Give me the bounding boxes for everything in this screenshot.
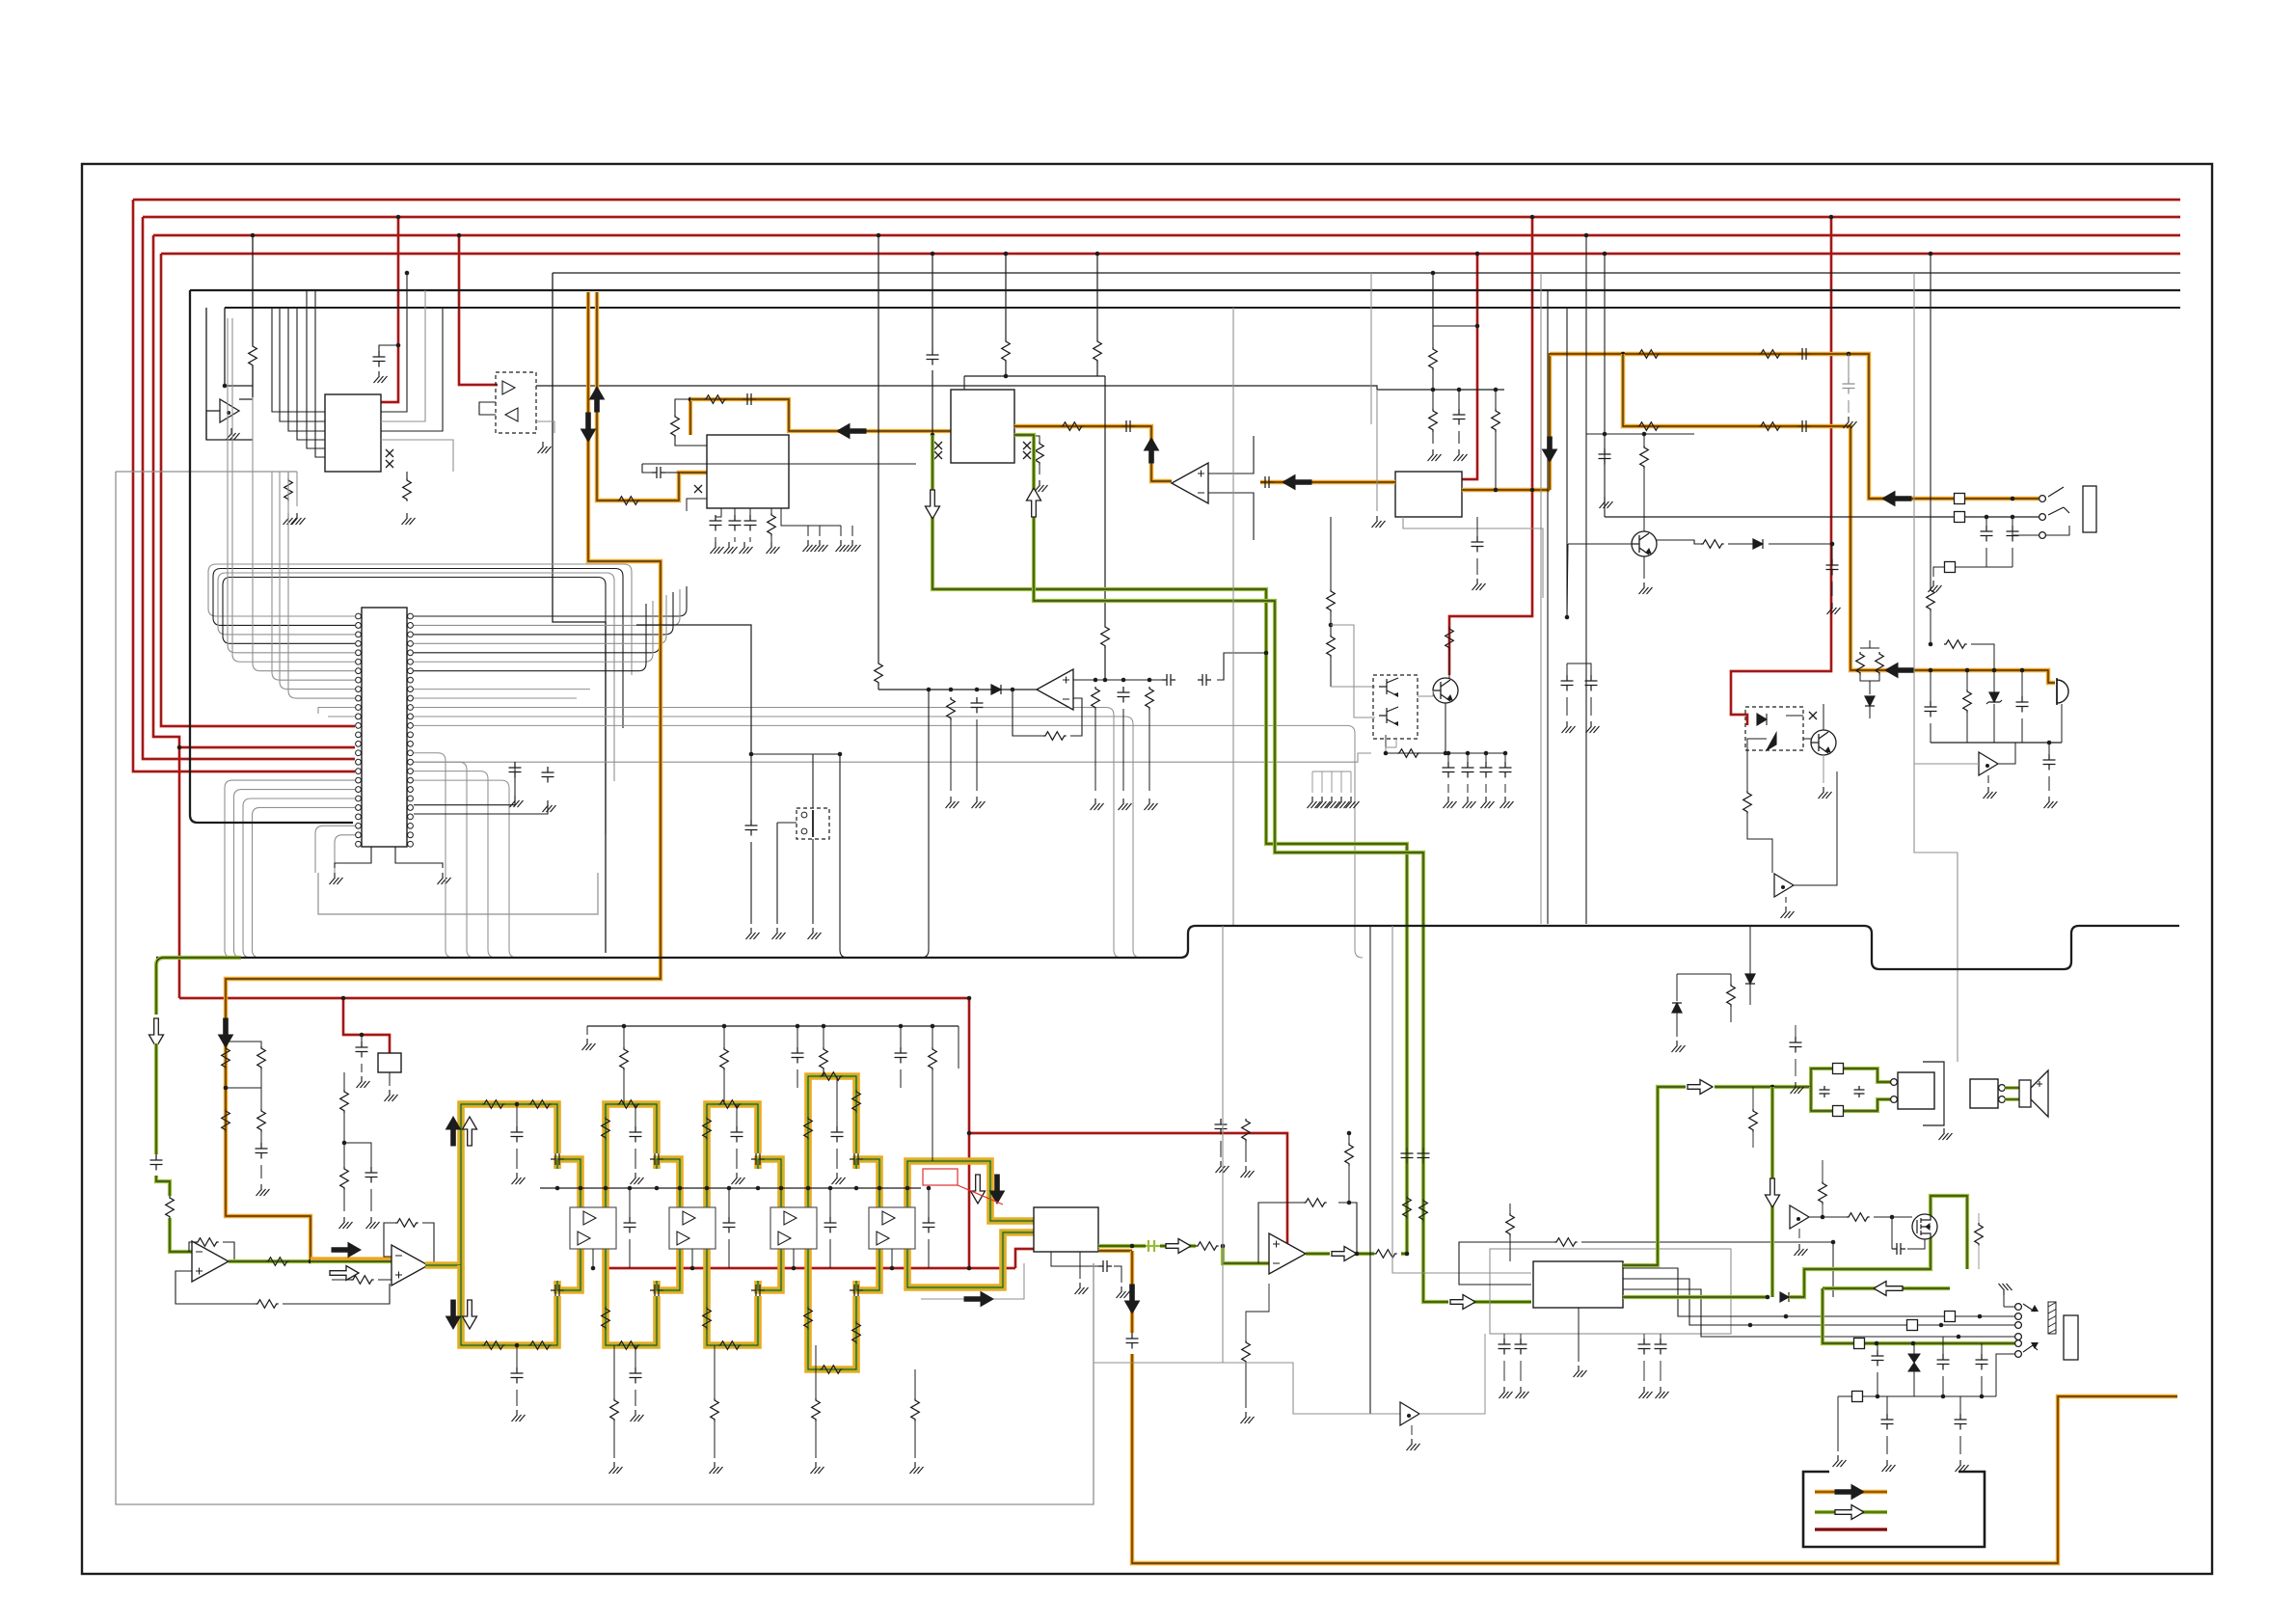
filter ladder top exit (orange+green) <box>907 1161 1034 1221</box>
ground <box>710 1462 723 1474</box>
wire <box>1448 649 1450 678</box>
wire <box>1660 1361 1661 1381</box>
ferrite bead <box>1955 494 1965 504</box>
wire <box>840 526 842 536</box>
buffer output wire <box>239 398 253 400</box>
resistor (filter) <box>718 1100 742 1109</box>
capacitor (mute) <box>1499 762 1512 778</box>
wire <box>586 1026 588 1035</box>
wire R4 tap1 <box>1005 254 1007 339</box>
capacitor C37 <box>1561 675 1574 691</box>
ground <box>366 1217 380 1229</box>
filter ladder entry + top run 1 (orange+green) <box>425 1104 557 1265</box>
bus line C wire <box>225 307 2180 309</box>
wire jack gnd rail <box>1940 566 2012 568</box>
ground <box>910 1462 924 1474</box>
wire feeder x1279 <box>1232 308 1234 926</box>
ground <box>1844 417 1857 428</box>
junction <box>1130 1244 1135 1249</box>
junction <box>405 271 410 276</box>
wire <box>1458 431 1460 444</box>
ground <box>1499 1387 1513 1398</box>
wire <box>260 1131 262 1143</box>
ground <box>1639 582 1653 594</box>
diode D7 (green path) <box>1780 1292 1789 1302</box>
MOSFET Q3 <box>1912 1214 1937 1239</box>
wire U2 gnd bundle2 <box>734 508 736 515</box>
wire U2 top left <box>675 399 690 415</box>
signal arrow (filled) <box>1145 438 1159 463</box>
capacitor (filter) <box>630 1367 642 1384</box>
wire amp feedback 2 <box>1581 1241 1833 1243</box>
wire <box>1749 926 1751 974</box>
resistor R15 <box>1036 442 1044 465</box>
wire <box>1467 753 1469 762</box>
ground <box>746 928 760 939</box>
wire CN1 right pin long <box>414 708 1121 959</box>
resistor R1 <box>249 344 257 367</box>
green to U15 wire <box>1223 1246 1269 1263</box>
junction <box>1603 432 1607 437</box>
wire U2 lower-left <box>642 464 652 473</box>
wire <box>723 1026 725 1047</box>
ground <box>1999 1284 2012 1295</box>
wire q5 emitter <box>1445 703 1446 753</box>
junction <box>1446 751 1451 756</box>
filter bias rail wire <box>587 1025 959 1027</box>
wire <box>1604 434 1606 448</box>
wire U1 left pin feed <box>280 308 325 421</box>
wire <box>1604 471 1606 490</box>
wire <box>623 1026 625 1047</box>
resistor R56 <box>222 1046 230 1069</box>
wire U1 left pin feed <box>288 308 325 431</box>
wire <box>287 472 289 478</box>
signal arrow (filled) <box>446 1117 461 1146</box>
wire <box>1869 640 1871 648</box>
wire <box>1503 1334 1505 1339</box>
resistor R73 (series on green) <box>1403 1196 1412 1219</box>
wire amp feed 1 <box>1369 926 1371 1414</box>
wire <box>1978 1245 1980 1269</box>
IC U3 <box>1395 472 1462 517</box>
junction <box>967 1266 972 1271</box>
wire <box>629 1239 631 1268</box>
wire cap stub <box>379 345 398 351</box>
wire CN1 right pin long <box>414 725 1363 958</box>
signal arrow (filled) <box>1882 492 1911 506</box>
wire <box>1749 984 1751 1005</box>
capacitor C68 <box>1881 1414 1894 1430</box>
resistor R63 <box>1374 1250 1397 1259</box>
resistor (filter) <box>528 1100 552 1109</box>
wire <box>1795 1059 1796 1076</box>
op-amp U13a <box>882 1211 895 1225</box>
capacitor (filter) <box>630 1126 642 1143</box>
orange link overlay wire <box>311 1257 392 1259</box>
resistor (filter) <box>711 1398 719 1421</box>
diode D1b <box>505 408 518 421</box>
wire CN1 pin to upper <box>288 472 355 698</box>
ground <box>1091 798 1104 810</box>
jack J1 sleeve terminal <box>2039 532 2046 539</box>
wire <box>1987 775 1989 783</box>
wire CN1 pin harness <box>223 578 606 835</box>
junction <box>931 252 935 257</box>
diode D3 <box>1753 539 1763 549</box>
orange riser wire <box>1548 353 1552 490</box>
ground <box>609 1462 623 1474</box>
junction <box>796 1024 800 1029</box>
capacitor C2 <box>509 762 522 778</box>
wire <box>2021 670 2023 696</box>
op-amp U10b <box>578 1232 590 1245</box>
junction <box>457 233 462 238</box>
capacitor (filter) <box>831 1126 844 1143</box>
orange dac out stub wire <box>1098 1249 1132 1253</box>
resistor R59 <box>257 1109 266 1132</box>
capacitor C56 <box>1215 1119 1228 1135</box>
ground <box>1882 1460 1896 1472</box>
wire <box>1005 362 1007 376</box>
filter op-amp block U11 <box>669 1207 716 1249</box>
ground <box>538 442 552 453</box>
junction <box>1444 751 1448 756</box>
main bus wire <box>156 926 2179 969</box>
ground <box>1600 497 1613 508</box>
junction <box>1475 324 1480 329</box>
wire <box>1676 1013 1678 1037</box>
capacitor C17 <box>1121 420 1135 432</box>
red drop to IC U3 wire <box>1462 254 1477 479</box>
wire vertical x214 <box>205 308 207 440</box>
capacitor (filter) <box>923 1217 935 1233</box>
capacitor (filter series) <box>650 1153 663 1165</box>
junction <box>1992 668 1997 673</box>
wire U1 left pin feed <box>297 308 325 440</box>
wire <box>1837 1396 1839 1451</box>
resistor R51 <box>196 1238 219 1247</box>
ferrite bead <box>1945 1312 1956 1322</box>
capacitor C38 <box>1585 675 1598 691</box>
green mute tap wire 2 <box>1623 1295 1768 1299</box>
wire <box>797 1026 798 1047</box>
wire <box>1981 1343 1983 1354</box>
resistor (filter) <box>820 1366 843 1374</box>
wire j2 bottom <box>1996 1354 2014 1367</box>
junction <box>1911 1341 1916 1346</box>
capacitor C53 <box>365 1167 378 1183</box>
ferrite bead <box>1833 1064 1844 1074</box>
wire <box>343 1112 345 1167</box>
orange into U3 wire <box>1260 480 1395 484</box>
op-amp U12a <box>784 1211 797 1225</box>
wire long drop x1146 <box>1104 376 1106 625</box>
ground <box>284 513 297 525</box>
green spk stub wire <box>2005 1086 2019 1090</box>
resistor (filter) <box>703 1117 712 1140</box>
filter ladder bottom run 1 (orange+green) <box>461 1265 557 1345</box>
wire CN1 pin harness <box>213 569 623 729</box>
ground <box>808 928 822 939</box>
wire <box>1104 647 1106 680</box>
junction <box>828 1186 833 1191</box>
wire U6 minus fb <box>1070 698 1082 736</box>
wire <box>1245 1141 1247 1162</box>
junction <box>1530 215 1535 220</box>
capacitor C24 <box>1260 476 1274 488</box>
capacitor C55 <box>1098 1260 1112 1272</box>
wire amp out 3 <box>1623 1289 2014 1337</box>
junction <box>1929 642 1933 647</box>
ground <box>1145 798 1158 810</box>
wire CN1 pin to upper <box>280 472 355 690</box>
buffer amp IC2b <box>1979 752 1998 775</box>
resistor R14 <box>1061 422 1084 431</box>
filter ladder top run 4 (orange+green) <box>808 1076 856 1207</box>
ferrite bead <box>1833 1106 1844 1117</box>
junction <box>690 1266 695 1271</box>
capacitor C20 <box>1118 687 1130 703</box>
speaker connector pin <box>1891 1079 1898 1086</box>
junction <box>705 1186 710 1191</box>
junction <box>2011 515 2015 520</box>
wire <box>1485 784 1487 793</box>
junction <box>1847 352 1851 357</box>
IC U14 (filter out) <box>1034 1207 1098 1252</box>
wire U3 bottom loop <box>1403 517 1543 598</box>
wire j2 top <box>2004 1306 2014 1308</box>
resistor (filter bias) <box>820 1047 828 1070</box>
wire <box>836 1149 838 1169</box>
junction <box>749 752 754 757</box>
wire CN1 right pin long <box>414 689 590 690</box>
junction <box>1748 1323 1753 1328</box>
op-amp U11b <box>677 1232 689 1245</box>
wire u7 plus2 <box>283 1284 390 1304</box>
wire <box>1520 1361 1522 1381</box>
wire vertical x233 <box>225 308 253 386</box>
wire <box>344 1143 371 1167</box>
signal arrow (hollow) <box>1450 1295 1475 1310</box>
wire <box>1886 1396 1888 1414</box>
junction <box>1830 542 1835 547</box>
resistor (filter) <box>812 1398 821 1421</box>
wire mic rail <box>1931 742 2062 744</box>
wire <box>736 1149 738 1169</box>
ground <box>1327 797 1340 808</box>
capacitor (filter) <box>624 1217 636 1233</box>
wire <box>878 684 879 690</box>
junction <box>360 1033 365 1038</box>
wire feeder x1645 <box>1585 235 1587 924</box>
wire <box>1311 771 1313 793</box>
wire <box>370 1189 372 1211</box>
junction <box>931 433 935 438</box>
ground <box>1337 797 1350 808</box>
ground <box>1444 797 1457 808</box>
wire <box>1966 670 1968 690</box>
wire <box>629 1188 631 1217</box>
junction <box>1939 1323 1944 1328</box>
wire feeder x1598 <box>1540 273 1542 924</box>
ground <box>724 542 738 554</box>
wire u16 gnd <box>1578 1308 1580 1362</box>
filter ladder bottom run 3 (orange+green) <box>707 1249 758 1345</box>
junction <box>967 996 972 1001</box>
resistor R30 <box>1637 350 1661 359</box>
wire <box>750 842 752 924</box>
ground <box>836 540 850 552</box>
resistor R64 <box>1304 1199 1327 1207</box>
jack J2 terminal <box>2015 1340 2022 1347</box>
resistor R78 <box>1397 749 1420 758</box>
capacitor (mute) <box>1480 762 1493 778</box>
wire <box>1728 543 1753 545</box>
wire <box>296 472 298 506</box>
wire CN1 right pin up <box>414 604 646 671</box>
wire <box>1981 1376 1983 1396</box>
zener diode D6 <box>1986 692 2002 704</box>
switch SW1 contacts <box>801 812 807 818</box>
junction <box>1121 678 1126 683</box>
wire CN1 right pin to bus <box>414 771 496 958</box>
wire <box>1348 1165 1350 1203</box>
junction <box>890 1266 895 1271</box>
wire <box>226 1042 261 1046</box>
tact switch SW1 (dashed) <box>797 808 829 839</box>
wire <box>1677 973 1731 975</box>
wire <box>749 537 751 542</box>
no-connect mark <box>1023 442 1031 449</box>
wire <box>1476 558 1478 575</box>
resistor (filter) <box>703 1307 712 1330</box>
resistor (filter) <box>482 1100 505 1109</box>
resistor (filter) <box>617 1100 640 1109</box>
capacitor C11 <box>743 393 756 405</box>
ground <box>772 928 786 939</box>
wire <box>1752 1087 1754 1109</box>
wire <box>1485 753 1487 762</box>
wire <box>613 1345 615 1398</box>
wire <box>1245 1363 1247 1408</box>
gray mute link wire <box>1094 1362 1223 1364</box>
op-amp U8 <box>392 1245 428 1286</box>
transistor Q4b <box>1379 707 1398 725</box>
ground <box>732 1173 745 1184</box>
capacitor C65 <box>1872 1350 1884 1367</box>
wire U1 right pin to bus 2 <box>381 290 425 421</box>
capacitor (mute) <box>1462 762 1474 778</box>
wire <box>1848 400 1850 413</box>
resistor R32 <box>1637 422 1661 431</box>
resistor R37 <box>1640 446 1649 469</box>
wire <box>1590 697 1592 716</box>
red branch to regulator wire <box>343 998 390 1053</box>
ground <box>1929 581 1942 592</box>
wire <box>891 1249 893 1268</box>
wire <box>715 537 716 542</box>
signal arrow (hollow) <box>1166 1239 1191 1254</box>
connector CN1 <box>362 608 407 847</box>
wire amp feedback <box>1459 1242 1554 1285</box>
transistor Q4a <box>1379 678 1398 696</box>
wire <box>1676 974 1678 1001</box>
wire <box>1447 753 1449 762</box>
wire <box>1930 610 1931 644</box>
wire <box>963 376 965 390</box>
signal arrow (hollow) <box>1332 1247 1357 1261</box>
wire <box>406 472 408 478</box>
wire <box>1869 681 1871 694</box>
wire feeder x1605 <box>1547 290 1549 924</box>
junction <box>756 1186 761 1191</box>
no-connect mark <box>934 451 942 459</box>
wire <box>691 1249 693 1268</box>
wire q4 chain top <box>1330 517 1332 589</box>
wire CN1 pin to bus <box>253 807 356 958</box>
ground <box>815 540 828 552</box>
resistor R42 <box>1963 690 1972 713</box>
wire <box>736 1104 738 1126</box>
junction <box>678 1186 683 1191</box>
wire <box>928 1188 930 1217</box>
op-amp U12b <box>778 1232 791 1245</box>
op-amp U10a <box>583 1211 596 1225</box>
wire u15 fb <box>1338 1203 1357 1254</box>
ground <box>1956 1460 1969 1472</box>
wire mic neg <box>2061 704 2063 743</box>
red drop right wire <box>1731 217 1831 725</box>
ground <box>1639 1387 1653 1398</box>
wire <box>1331 771 1333 793</box>
wire q5 base link <box>1418 690 1433 696</box>
resistor R80 <box>1554 1238 1578 1247</box>
junction <box>1565 615 1570 620</box>
wire <box>623 1069 625 1104</box>
green+orange link wire <box>311 1259 392 1263</box>
capacitor (filter series) <box>551 1153 564 1165</box>
junction <box>1766 1295 1770 1300</box>
wire <box>1467 784 1469 793</box>
ground <box>1241 1412 1255 1423</box>
ground <box>1984 787 1997 798</box>
resistor (filter) <box>804 1307 813 1330</box>
junction <box>1431 388 1436 392</box>
wire <box>1330 611 1332 635</box>
signal arrow (hollow) <box>463 1117 477 1146</box>
junction <box>1466 751 1471 756</box>
ground <box>1516 1387 1529 1398</box>
filter mid rail wire <box>540 1187 921 1189</box>
wire CN1 right pin up <box>414 598 660 653</box>
wire dac bottom <box>1051 1252 1098 1266</box>
wire <box>1795 1025 1796 1037</box>
ground <box>1216 1161 1229 1173</box>
ground <box>1939 1128 1953 1140</box>
wire <box>1822 1160 1823 1181</box>
wire <box>1567 663 1591 675</box>
wire <box>1730 974 1732 984</box>
wire sw gnd <box>777 822 797 824</box>
junction <box>251 233 256 238</box>
wire <box>1013 690 1043 736</box>
resistor R72 <box>1727 984 1736 1007</box>
op-amp U13b <box>877 1232 889 1245</box>
orange bottom branch wire <box>1130 1251 1134 1333</box>
ground <box>711 542 724 554</box>
ground <box>1308 797 1321 808</box>
